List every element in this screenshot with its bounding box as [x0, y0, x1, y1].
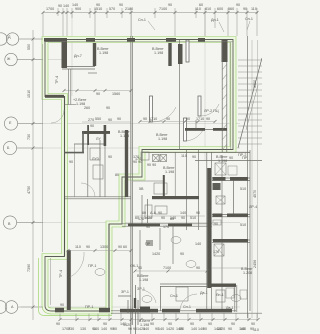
svg-text:90: 90 [214, 222, 218, 226]
svg-text:140: 140 [72, 3, 78, 7]
svg-text:ЛР-4: ЛР-4 [249, 205, 257, 209]
svg-text:90: 90 [180, 252, 184, 256]
svg-text:ЗР-1: ЗР-1 [121, 290, 129, 294]
svg-text:600: 600 [217, 7, 223, 11]
svg-text:90 90: 90 90 [147, 163, 156, 167]
svg-text:140: 140 [180, 211, 186, 215]
svg-text:90: 90 [119, 3, 123, 7]
svg-text:90 90: 90 90 [133, 160, 142, 164]
svg-text:90: 90 [229, 156, 233, 160]
svg-text:Сн-1: Сн-1 [170, 294, 178, 298]
svg-text:Дн-1: Дн-1 [211, 18, 219, 22]
svg-text:90: 90 [251, 322, 255, 326]
svg-text:90: 90 [168, 3, 172, 7]
svg-text:ЗР-1: ЗР-1 [137, 287, 145, 291]
svg-text:Сн-1: Сн-1 [183, 305, 191, 309]
svg-text:ЛР-2 ПЦ: ЛР-2 ПЦ [204, 109, 219, 113]
svg-text:1.198: 1.198 [218, 159, 227, 163]
svg-text:90: 90 [228, 327, 232, 331]
svg-text:1420: 1420 [144, 216, 152, 220]
svg-text:1.198: 1.198 [165, 170, 174, 174]
svg-text:Сп-1: Сп-1 [245, 17, 253, 21]
svg-text:90: 90 [196, 266, 200, 270]
svg-text:260: 260 [84, 106, 90, 110]
svg-text:ТР-4: ТР-4 [59, 270, 63, 278]
svg-text:510: 510 [240, 223, 246, 227]
svg-text:270: 270 [88, 118, 94, 122]
svg-text:Лн-1: Лн-1 [216, 293, 224, 297]
svg-text:1700: 1700 [46, 7, 54, 11]
svg-text:80: 80 [115, 173, 119, 177]
svg-text:1510: 1510 [94, 7, 102, 11]
svg-text:90: 90 [161, 216, 165, 220]
svg-text:ПР-1: ПР-1 [85, 305, 93, 309]
svg-text:7100: 7100 [159, 7, 167, 11]
svg-text:140: 140 [191, 327, 197, 331]
svg-text:90: 90 [138, 266, 142, 270]
svg-text:170: 170 [213, 250, 219, 254]
svg-text:730: 730 [27, 134, 31, 140]
svg-text:7100: 7100 [163, 266, 171, 270]
svg-text:1420: 1420 [152, 252, 160, 256]
svg-text:90: 90 [243, 7, 247, 11]
svg-text:90: 90 [58, 4, 62, 8]
svg-text:90: 90 [69, 160, 73, 164]
svg-text:90: 90 [196, 211, 200, 215]
svg-text:110: 110 [75, 245, 81, 249]
svg-text:7390: 7390 [27, 264, 31, 272]
svg-text:90: 90 [108, 118, 112, 122]
svg-text:ЛУ: ЛУ [96, 137, 101, 141]
svg-text:90: 90 [108, 155, 112, 159]
svg-text:Дв-1: Дв-1 [200, 291, 208, 295]
svg-text:90: 90 [236, 3, 240, 7]
svg-text:810: 810 [205, 7, 211, 11]
svg-text:140: 140 [195, 242, 201, 246]
svg-text:140: 140 [240, 327, 246, 331]
svg-text:90: 90 [166, 117, 170, 121]
svg-text:90: 90 [231, 322, 235, 326]
svg-text:140: 140 [101, 327, 107, 331]
svg-text:90: 90 [158, 211, 162, 215]
svg-text:1.198: 1.198 [99, 51, 108, 55]
svg-text:90: 90 [208, 322, 212, 326]
svg-text:60: 60 [135, 216, 139, 220]
svg-text:Ж: Ж [7, 57, 11, 61]
svg-text:1510: 1510 [27, 90, 31, 98]
svg-text:90: 90 [190, 322, 194, 326]
svg-text:90: 90 [110, 327, 114, 331]
svg-text:А-8: А-8 [150, 211, 156, 215]
svg-text:90: 90 [96, 92, 100, 96]
svg-text:3300: 3300 [253, 80, 257, 88]
svg-text:550: 550 [95, 117, 101, 121]
svg-text:140: 140 [198, 327, 204, 331]
svg-text:90: 90 [146, 225, 150, 229]
svg-text:1300: 1300 [100, 245, 108, 249]
svg-text:90: 90 [181, 216, 185, 220]
svg-text:ПР: ПР [242, 156, 248, 160]
svg-text:60: 60 [142, 211, 146, 215]
svg-text:90: 90 [86, 245, 90, 249]
svg-text:90: 90 [128, 327, 132, 331]
svg-text:140: 140 [170, 216, 176, 220]
svg-text:60: 60 [123, 245, 127, 249]
svg-text:90: 90 [214, 187, 218, 191]
svg-text:Сн-1: Сн-1 [138, 18, 146, 22]
svg-text:90: 90 [168, 322, 172, 326]
svg-text:1710: 1710 [149, 117, 157, 121]
svg-text:1420: 1420 [166, 327, 174, 331]
svg-text:510: 510 [190, 216, 196, 220]
svg-text:170: 170 [163, 225, 169, 229]
svg-text:2180: 2180 [125, 7, 133, 11]
svg-text:1.208: 1.208 [243, 271, 252, 275]
svg-text:90: 90 [56, 322, 60, 326]
svg-text:510: 510 [240, 187, 246, 191]
svg-text:1.198: 1.198 [154, 51, 163, 55]
svg-text:110: 110 [195, 7, 201, 11]
svg-text:900: 900 [75, 7, 81, 11]
svg-text:140: 140 [93, 327, 99, 331]
svg-text:140: 140 [120, 322, 126, 326]
svg-text:2456: 2456 [253, 260, 257, 268]
svg-text:90: 90 [143, 117, 147, 121]
svg-text:140: 140 [158, 327, 164, 331]
svg-text:Дн-7: Дн-7 [74, 54, 82, 58]
svg-text:60: 60 [199, 3, 203, 7]
svg-text:1710: 1710 [196, 117, 204, 121]
svg-text:90: 90 [117, 117, 121, 121]
svg-text:90: 90 [103, 322, 107, 326]
svg-text:ПР-1: ПР-1 [88, 264, 96, 268]
svg-text:140: 140 [63, 4, 69, 8]
svg-text:1.198: 1.198 [120, 134, 129, 138]
svg-text:5В: 5В [139, 187, 144, 191]
svg-text:90: 90 [60, 303, 64, 307]
svg-text:110: 110 [253, 328, 259, 332]
svg-text:570: 570 [109, 7, 115, 11]
svg-text:1.198: 1.198 [158, 137, 167, 141]
svg-text:1420: 1420 [176, 327, 184, 331]
svg-text:90: 90 [118, 245, 122, 249]
svg-text:130: 130 [80, 327, 86, 331]
svg-text:4750: 4750 [27, 186, 31, 194]
svg-text:90: 90 [186, 117, 190, 121]
svg-text:1420: 1420 [137, 327, 145, 331]
svg-text:90: 90 [90, 124, 94, 128]
svg-text:ЛУЗ: ЛУЗ [92, 157, 100, 161]
svg-text:110: 110 [251, 7, 257, 11]
svg-text:110: 110 [181, 154, 187, 158]
svg-text:90: 90 [96, 3, 100, 7]
svg-text:730: 730 [68, 327, 74, 331]
svg-text:1.198: 1.198 [139, 278, 148, 282]
svg-text:Дв-1: Дв-1 [226, 306, 234, 310]
svg-text:1420: 1420 [217, 327, 225, 331]
svg-text:90: 90 [106, 106, 110, 110]
svg-text:560: 560 [228, 7, 234, 11]
svg-text:90: 90 [192, 155, 196, 159]
svg-text:170: 170 [133, 155, 139, 159]
svg-text:4570: 4570 [253, 190, 257, 198]
svg-text:ТР-4: ТР-4 [55, 76, 59, 84]
svg-text:90: 90 [206, 117, 210, 121]
svg-text:90: 90 [150, 322, 154, 326]
svg-text:ПР: ПР [145, 242, 151, 246]
svg-text:1560: 1560 [112, 92, 120, 96]
svg-text:550: 550 [27, 44, 31, 50]
